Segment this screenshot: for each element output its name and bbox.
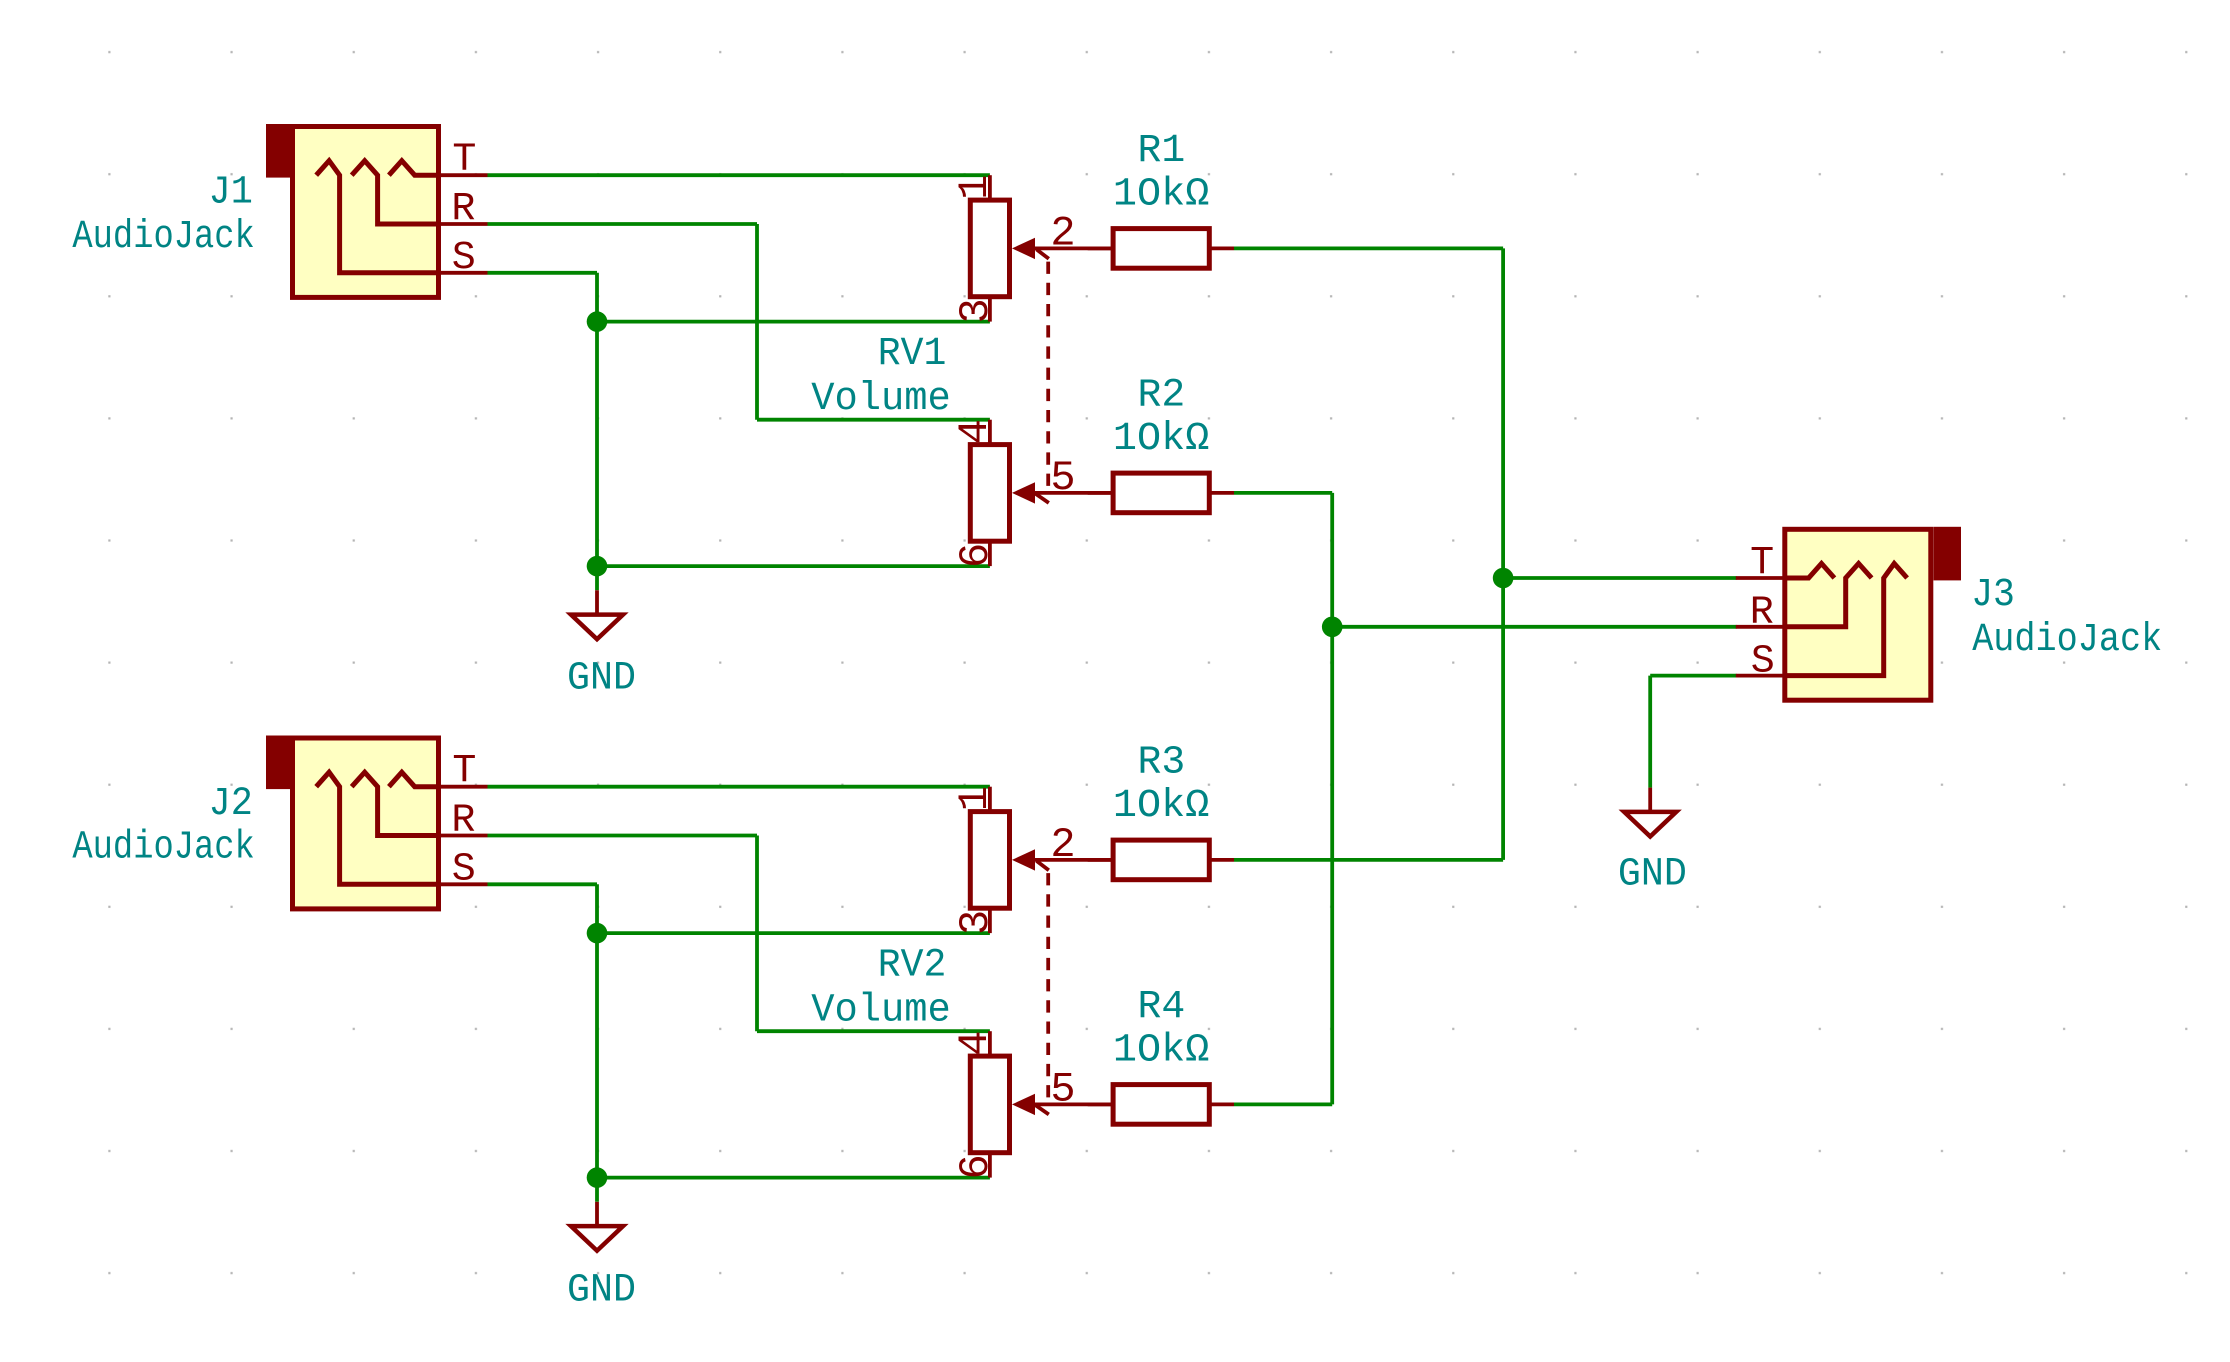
audio jack J2 body — [293, 738, 439, 909]
junction — [587, 923, 608, 944]
svg-text:S: S — [452, 236, 476, 281]
R1 pin 2 — [1209, 246, 1234, 250]
wire — [1234, 1103, 1332, 1107]
RV2A pin 1 — [988, 787, 992, 812]
R4 pin 2 — [1209, 1103, 1234, 1107]
svg-text:GND: GND — [567, 656, 636, 701]
wire — [757, 1029, 990, 1033]
resistor R2 body — [1113, 473, 1209, 513]
svg-text:RV2: RV2 — [878, 944, 947, 989]
RV2B wiper arrow pin 5 — [1012, 1094, 1035, 1115]
svg-text:1: 1 — [951, 786, 999, 811]
J2 sleeve tab — [266, 736, 295, 790]
R2 pin 1 — [1088, 491, 1113, 495]
R1 pin 1 — [1088, 246, 1113, 250]
svg-text:R4: R4 — [1138, 985, 1186, 1030]
ground symbol — [595, 590, 599, 614]
svg-text:AudioJack: AudioJack — [72, 826, 254, 871]
wire — [1234, 491, 1332, 495]
svg-text:AudioJack: AudioJack — [1972, 618, 2162, 663]
wire — [488, 834, 758, 838]
wire — [488, 785, 990, 789]
junction — [1322, 617, 1343, 638]
RV2B pin 4 — [988, 1031, 992, 1056]
svg-text:T: T — [452, 138, 476, 183]
svg-text:6: 6 — [952, 543, 1000, 568]
J1 ring contact — [352, 161, 439, 224]
wire — [1650, 674, 1736, 678]
wire — [597, 320, 990, 324]
svg-text:J2: J2 — [209, 782, 253, 827]
svg-text:1OkΩ: 1OkΩ — [1113, 1029, 1209, 1074]
J3 sleeve contact — [1785, 564, 1907, 676]
ground symbol — [595, 1202, 599, 1226]
wire — [1501, 248, 1505, 860]
wire — [597, 1176, 990, 1180]
wire — [1648, 676, 1652, 788]
svg-text:RV1: RV1 — [878, 332, 947, 377]
J2 sleeve contact — [316, 772, 438, 884]
svg-text:J3: J3 — [1971, 573, 2015, 618]
gang coupling slash mark — [1035, 494, 1049, 503]
potentiometer RV2B body — [970, 1056, 1009, 1153]
gang coupling dashed line — [1046, 262, 1050, 489]
svg-text:R1: R1 — [1138, 129, 1186, 174]
svg-text:6: 6 — [952, 1154, 1000, 1179]
wire — [755, 224, 759, 420]
svg-text:5: 5 — [1050, 1066, 1075, 1114]
svg-text:3: 3 — [952, 298, 1000, 323]
svg-text:R: R — [1750, 591, 1774, 636]
potentiometer RV1A body — [970, 200, 1009, 297]
junction — [587, 311, 608, 332]
potentiometer RV1B body — [970, 445, 1009, 542]
svg-text:S: S — [1751, 639, 1775, 684]
RV2B pin 6 — [988, 1153, 992, 1178]
svg-text:3: 3 — [952, 910, 1000, 935]
junction — [587, 556, 608, 577]
resistor R4 body — [1113, 1085, 1209, 1125]
wire — [1234, 246, 1503, 250]
svg-text:1OkΩ: 1OkΩ — [1113, 173, 1209, 218]
svg-text:S: S — [452, 848, 476, 893]
J1 pin S — [439, 271, 488, 275]
J3 sleeve tab — [1934, 527, 1962, 581]
svg-text:4: 4 — [951, 1031, 999, 1056]
wire — [488, 173, 990, 177]
RV1A pin 1 — [988, 175, 992, 200]
wire — [1234, 858, 1503, 862]
RV2A pin 3 — [988, 908, 992, 933]
RV1A wiper arrow pin 2 — [1012, 238, 1035, 259]
wire — [1503, 576, 1736, 580]
svg-text:R: R — [451, 187, 475, 232]
gang coupling slash mark — [1035, 1105, 1049, 1114]
wire — [1332, 625, 1736, 629]
svg-text:4: 4 — [951, 419, 999, 444]
svg-text:1: 1 — [951, 175, 999, 200]
svg-text:T: T — [1750, 542, 1774, 587]
J3 pin R — [1736, 625, 1785, 629]
wire — [755, 836, 759, 1032]
wire — [595, 884, 599, 1202]
J2 pin R — [439, 834, 488, 838]
RV1B pin 4 — [988, 420, 992, 445]
ground symbol — [1648, 788, 1652, 812]
svg-text:J1: J1 — [209, 171, 253, 216]
wire — [597, 564, 990, 568]
J2 pin T — [439, 785, 488, 789]
R3 pin 2 — [1209, 858, 1234, 862]
gang coupling slash mark — [1037, 249, 1049, 258]
J2 tip contact — [389, 772, 439, 787]
R4 pin 1 — [1088, 1103, 1113, 1107]
svg-text:1OkΩ: 1OkΩ — [1113, 784, 1209, 829]
svg-text:GND: GND — [567, 1269, 636, 1314]
J1 pin R — [439, 222, 488, 226]
J3 pin S — [1736, 674, 1785, 678]
RV1B wiper arrow pin 5 — [1012, 482, 1035, 503]
wire — [595, 273, 599, 591]
wire — [757, 418, 990, 422]
audio jack J1 body — [293, 127, 439, 298]
wire — [488, 271, 598, 275]
RV1A pin 3 — [988, 297, 992, 322]
junction — [587, 1167, 608, 1188]
gang coupling slash mark — [1037, 861, 1049, 870]
J2 pin S — [439, 882, 488, 886]
RV1B pin 6 — [988, 541, 992, 566]
svg-text:GND: GND — [1618, 853, 1687, 898]
svg-text:2: 2 — [1050, 210, 1075, 258]
svg-text:Volume: Volume — [811, 377, 951, 422]
J2 ring contact — [352, 772, 439, 835]
RV2A wiper arrow pin 2 — [1012, 849, 1035, 870]
J3 tip contact — [1785, 564, 1835, 579]
R2 pin 2 — [1209, 491, 1234, 495]
J3 ring contact — [1785, 564, 1872, 627]
potentiometer RV2A body — [970, 812, 1009, 909]
svg-text:1OkΩ: 1OkΩ — [1113, 417, 1209, 462]
svg-text:2: 2 — [1050, 821, 1075, 869]
J1 pin T — [439, 173, 488, 177]
svg-text:5: 5 — [1050, 454, 1075, 502]
resistor R3 body — [1113, 840, 1209, 880]
R3 pin 1 — [1088, 858, 1113, 862]
svg-text:AudioJack: AudioJack — [72, 215, 254, 260]
J1 tip contact — [389, 161, 439, 176]
svg-text:R2: R2 — [1138, 374, 1186, 419]
resistor R1 body — [1113, 229, 1209, 269]
gang coupling dashed line — [1046, 873, 1050, 1100]
J1 sleeve tab — [266, 124, 295, 178]
wire — [597, 931, 990, 935]
J1 sleeve contact — [316, 161, 438, 273]
wire — [488, 222, 758, 226]
audio jack J3 body — [1785, 529, 1931, 700]
J3 pin T — [1736, 576, 1785, 580]
svg-text:R: R — [451, 798, 475, 843]
svg-text:Volume: Volume — [811, 988, 951, 1033]
junction — [1493, 568, 1514, 589]
svg-text:R3: R3 — [1138, 741, 1186, 786]
wire — [488, 882, 598, 886]
wire — [1330, 493, 1334, 1105]
svg-text:T: T — [452, 750, 476, 795]
